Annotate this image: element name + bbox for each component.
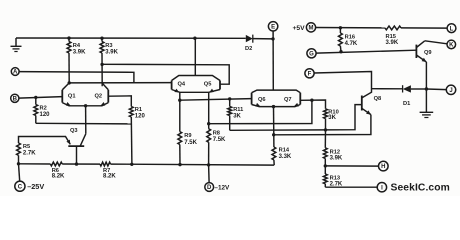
emitter arrow Q1 xyxy=(66,102,71,106)
wire top rail from ground to D2 xyxy=(16,37,246,39)
node junction R8 bottom / terminal D xyxy=(207,163,210,166)
svg-text:H: H xyxy=(381,164,385,170)
label R10 xyxy=(328,109,338,115)
svg-text:3.3K: 3.3K xyxy=(279,154,292,160)
label R13 xyxy=(330,175,340,181)
node junction R4 top xyxy=(67,36,70,39)
resistor R6 xyxy=(50,162,62,166)
diode D2 xyxy=(246,35,273,43)
emitter arrow Q8 xyxy=(366,110,371,114)
label R7 value 8.2K xyxy=(103,174,116,180)
terminal C xyxy=(15,181,25,191)
terminal H xyxy=(379,161,389,171)
svg-text:–25V: –25V xyxy=(27,182,44,191)
label R2 xyxy=(40,106,47,112)
emitter arrow Q9 xyxy=(422,58,427,62)
terminal I xyxy=(377,183,386,192)
wire from B to Q1 base xyxy=(19,97,62,99)
node junction Q3 base on rail xyxy=(75,162,78,165)
svg-text:R11: R11 xyxy=(233,107,243,113)
transistor pair Q6 Q7 envelope xyxy=(252,90,301,107)
svg-text:2.7K: 2.7K xyxy=(23,151,36,157)
terminal L xyxy=(447,24,456,33)
wire D1 node to J xyxy=(426,88,446,91)
node junction R16 top xyxy=(339,26,342,29)
wire from A joining Q1-collector wire xyxy=(19,72,134,83)
svg-text:R2: R2 xyxy=(40,106,47,112)
wire E down to Q6/Q7 collectors xyxy=(272,31,274,90)
label R8 value 7.5K xyxy=(213,137,226,143)
svg-text:8.2K: 8.2K xyxy=(52,174,65,180)
svg-text:B: B xyxy=(13,96,18,102)
wire top rail to Q4/Q5 common collector xyxy=(194,38,196,75)
node junction Q4 emitter / wire to Q6 base xyxy=(178,99,181,102)
node junction R11 top xyxy=(228,97,231,100)
svg-text:3K: 3K xyxy=(233,113,241,119)
svg-text:R14: R14 xyxy=(279,148,290,154)
wire to terminal I xyxy=(325,186,377,188)
resistor R10 xyxy=(324,109,328,130)
wire to terminal H xyxy=(325,165,378,167)
node junction D1 / Q9 emitter / ground xyxy=(425,87,428,90)
svg-text:Q4: Q4 xyxy=(178,81,186,87)
label R13 value 2.7K xyxy=(330,182,343,188)
svg-text:8.2K: 8.2K xyxy=(103,174,116,180)
label Q9 xyxy=(424,50,432,56)
resistor R12 xyxy=(323,148,327,166)
label Q8 xyxy=(374,96,382,102)
svg-text:Q2: Q2 xyxy=(95,93,103,99)
label R16 xyxy=(345,35,355,41)
terminal G xyxy=(307,49,316,58)
node junction W3 / R10-R12 xyxy=(324,128,327,131)
wire Q5 emitter down xyxy=(208,92,210,129)
svg-text:3.9K: 3.9K xyxy=(73,50,86,56)
ground right xyxy=(420,112,434,117)
wire from R3 node to Q5 base xyxy=(102,64,229,84)
svg-text:120: 120 xyxy=(40,112,51,118)
wire bottom rail segment 2 xyxy=(62,163,100,165)
wire Q9 emitter down xyxy=(425,62,427,112)
wire rail to D xyxy=(208,165,211,183)
svg-text:M: M xyxy=(309,26,314,32)
label R14 value 3.3K xyxy=(279,154,292,160)
node junction Q5 emitter wire to Q7 base xyxy=(207,122,210,125)
transistor pair Q4 Q5 envelope xyxy=(172,76,220,93)
svg-text:F: F xyxy=(308,71,312,77)
resistor R9 xyxy=(178,132,182,165)
label R2 value 120 xyxy=(40,112,51,118)
svg-text:Q7: Q7 xyxy=(284,97,292,103)
wire C to rail xyxy=(19,164,20,181)
label R11 value 3K xyxy=(233,113,241,119)
wire R2 bottom to R1 node xyxy=(36,122,132,125)
label Q3 xyxy=(70,128,78,134)
ground top-left xyxy=(11,38,22,52)
label Q6 xyxy=(258,97,266,103)
node junction Y2 wire on emitter line xyxy=(272,133,275,136)
svg-text:R8: R8 xyxy=(213,130,220,136)
node junction R9 bottom on rail xyxy=(178,163,181,166)
wire bottom rail segment 3 xyxy=(111,164,275,165)
label R15 xyxy=(386,34,396,40)
wire Q1 collector to Q4 base xyxy=(69,82,171,84)
svg-text:R1: R1 xyxy=(135,107,142,113)
wire Q2 base to R1 xyxy=(108,96,131,107)
terminal J xyxy=(446,85,455,94)
terminal B xyxy=(11,94,19,102)
wire bottom rail segment 1 xyxy=(19,163,51,165)
wire Q8 collector to D1 xyxy=(372,88,403,90)
resistor R1 xyxy=(129,107,133,165)
emitter arrow Q3 xyxy=(66,140,70,145)
label R4 xyxy=(73,43,81,49)
svg-text:D1: D1 xyxy=(403,101,410,107)
node junction Q7 base wire xyxy=(310,99,313,102)
resistor R8 xyxy=(207,129,211,165)
svg-text:R3: R3 xyxy=(105,43,112,49)
svg-text:7.5K: 7.5K xyxy=(184,140,197,146)
transistor Q3 xyxy=(68,134,86,164)
emitter arrow Q5 xyxy=(209,89,214,93)
watermark SeekIC.com xyxy=(391,182,450,193)
svg-text:3.9K: 3.9K xyxy=(386,40,399,46)
terminal K xyxy=(447,40,456,49)
svg-text:Q3: Q3 xyxy=(70,128,78,134)
transistor pair Q1 Q2 envelope xyxy=(62,83,108,106)
node junction R12/R13/H xyxy=(324,164,327,167)
label R5 value 2.7K xyxy=(23,151,36,157)
label R12 xyxy=(330,149,340,155)
transistor Q9 xyxy=(416,41,426,62)
wire Q9 collector to K xyxy=(425,41,447,44)
svg-text:+5V: +5V xyxy=(293,25,306,32)
resistor R2 xyxy=(34,97,38,123)
resistor R3 xyxy=(100,38,104,86)
label R9 value 7.5K xyxy=(184,140,197,146)
label R5 xyxy=(23,144,30,150)
wire Q4 emitter to Q6 base xyxy=(180,99,252,101)
node junction R3 top xyxy=(100,37,103,40)
resistor R11 xyxy=(228,99,232,130)
label R16 value 4.7K xyxy=(345,41,358,47)
svg-text:E: E xyxy=(271,24,275,30)
wire F to Q8 collector xyxy=(314,72,371,98)
node junction top rail at x195 xyxy=(193,37,196,40)
wire Q6/Q7 emitters down to R14 xyxy=(273,107,275,147)
node junction C / R5 / rail xyxy=(17,162,20,165)
label Q7 xyxy=(284,97,292,103)
label R10 value 3K xyxy=(328,115,336,121)
svg-text:G: G xyxy=(309,51,314,57)
svg-text:R15: R15 xyxy=(386,34,396,40)
svg-text:A: A xyxy=(13,70,18,76)
label R4 value 3.9K xyxy=(73,50,86,56)
wire M to R15 xyxy=(316,27,385,29)
node junction R3 to Q5-base wire xyxy=(100,63,103,66)
svg-text:Q1: Q1 xyxy=(68,93,76,99)
svg-text:R4: R4 xyxy=(73,43,81,49)
svg-text:J: J xyxy=(449,88,452,94)
terminal A xyxy=(11,68,19,76)
diode D1 xyxy=(403,85,427,92)
resistor R13 xyxy=(323,166,327,187)
emitter arrow Q4 xyxy=(174,89,179,93)
svg-text:120: 120 xyxy=(135,113,146,119)
terminal M xyxy=(306,23,315,32)
label R6 xyxy=(52,168,59,174)
label R1 value 120 xyxy=(135,113,146,119)
wire Q8 emitter to Q6/Q7 emitter node xyxy=(274,115,371,135)
label R7 xyxy=(103,168,110,174)
label Q1 xyxy=(68,93,76,99)
svg-text:R13: R13 xyxy=(330,175,340,181)
label Q5 xyxy=(204,81,212,87)
svg-text:Q8: Q8 xyxy=(374,96,382,102)
svg-text:3.9K: 3.9K xyxy=(105,50,118,56)
label R12 value 3.9K xyxy=(330,156,343,162)
label Q4 xyxy=(178,81,186,87)
emitter arrow Q6 xyxy=(256,103,261,107)
wire R5 top to Q3 emitter xyxy=(19,137,71,145)
node junction Q6/Q7 emitters xyxy=(272,105,275,108)
wire Q4 emitter down xyxy=(179,92,181,131)
label R6 value 8.2K xyxy=(52,174,65,180)
wire R10 bottom to R12 xyxy=(324,130,326,148)
node junction R16 bottom on G wire xyxy=(339,50,342,53)
svg-text:4.7K: 4.7K xyxy=(345,41,358,47)
label R3 value 3.9K xyxy=(105,50,118,56)
svg-text:–12V: –12V xyxy=(214,185,230,192)
resistor R15 xyxy=(385,26,401,30)
node junction D2 cathode wire xyxy=(271,37,274,40)
wire R11 bottom to Q8 base xyxy=(230,105,362,131)
svg-text:K: K xyxy=(449,43,454,49)
svg-text:R5: R5 xyxy=(23,144,30,150)
emitter arrow Q7 xyxy=(294,103,299,107)
label R3 xyxy=(105,43,112,49)
wire R15 to L xyxy=(401,27,447,29)
wire Q7 base to R10 xyxy=(300,100,325,109)
svg-text:I: I xyxy=(381,185,383,191)
label R15 value 3.9K xyxy=(386,40,399,46)
wire G to Q9 base xyxy=(316,50,416,53)
emitter arrow Q2 xyxy=(101,102,106,106)
label Q2 xyxy=(95,93,103,99)
terminal F xyxy=(305,69,314,78)
svg-text:Q6: Q6 xyxy=(258,97,266,103)
label +5V xyxy=(293,25,306,32)
svg-text:SeekIC.com: SeekIC.com xyxy=(391,182,450,193)
resistor R14 xyxy=(272,147,276,165)
svg-text:Q9: Q9 xyxy=(424,50,432,56)
resistor R4 xyxy=(67,38,71,83)
transistor Q8 xyxy=(362,96,371,115)
label R8 xyxy=(213,130,220,136)
resistor R5 xyxy=(17,143,21,164)
label R14 xyxy=(279,148,290,154)
svg-text:L: L xyxy=(450,26,454,32)
node junction R2 top xyxy=(34,96,37,99)
label -12V xyxy=(214,185,230,192)
label D1 xyxy=(403,101,410,107)
svg-text:7.5K: 7.5K xyxy=(213,137,226,143)
svg-text:3K: 3K xyxy=(328,115,336,121)
node junction Q1 collector / R4 xyxy=(68,81,71,84)
label D2 xyxy=(245,46,252,52)
terminal E xyxy=(268,22,277,31)
label -25V xyxy=(27,182,44,191)
node junction R1 bottom on rail xyxy=(130,163,133,166)
resistor R16 xyxy=(339,28,343,52)
svg-text:C: C xyxy=(18,184,23,190)
label R9 xyxy=(184,133,191,139)
svg-text:Q5: Q5 xyxy=(204,81,212,87)
label R1 xyxy=(135,107,142,113)
wire Q5 emitter node to Q7 base node xyxy=(209,100,312,124)
node junction Q1/Q2 emitters xyxy=(84,104,87,107)
svg-text:D: D xyxy=(207,185,212,191)
svg-text:R16: R16 xyxy=(345,35,355,41)
svg-text:R12: R12 xyxy=(330,149,340,155)
label R11 xyxy=(233,107,243,113)
wire Q1/Q2 emitters down to Q3 xyxy=(85,106,87,134)
terminal D xyxy=(205,183,214,192)
resistor R7 xyxy=(100,162,111,166)
svg-text:3.9K: 3.9K xyxy=(330,156,343,162)
svg-text:R9: R9 xyxy=(184,133,191,139)
svg-text:D2: D2 xyxy=(245,46,252,52)
